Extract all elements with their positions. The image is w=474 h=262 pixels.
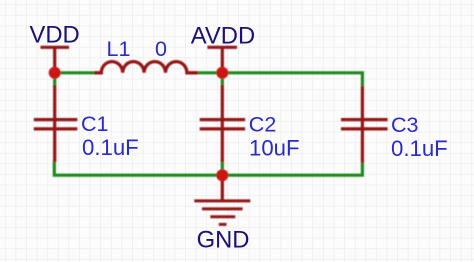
svg-text:GND: GND (197, 226, 250, 253)
svg-text:L1: L1 (107, 37, 131, 61)
svg-text:10uF: 10uF (249, 136, 300, 161)
svg-text:0: 0 (155, 37, 167, 61)
svg-text:AVDD: AVDD (191, 22, 255, 49)
svg-text:C1: C1 (81, 112, 108, 136)
svg-text:0.1uF: 0.1uF (82, 135, 139, 160)
svg-text:0.1uF: 0.1uF (391, 136, 448, 161)
svg-text:VDD: VDD (30, 22, 80, 49)
svg-text:C3: C3 (391, 113, 419, 137)
svg-text:C2: C2 (249, 113, 276, 137)
